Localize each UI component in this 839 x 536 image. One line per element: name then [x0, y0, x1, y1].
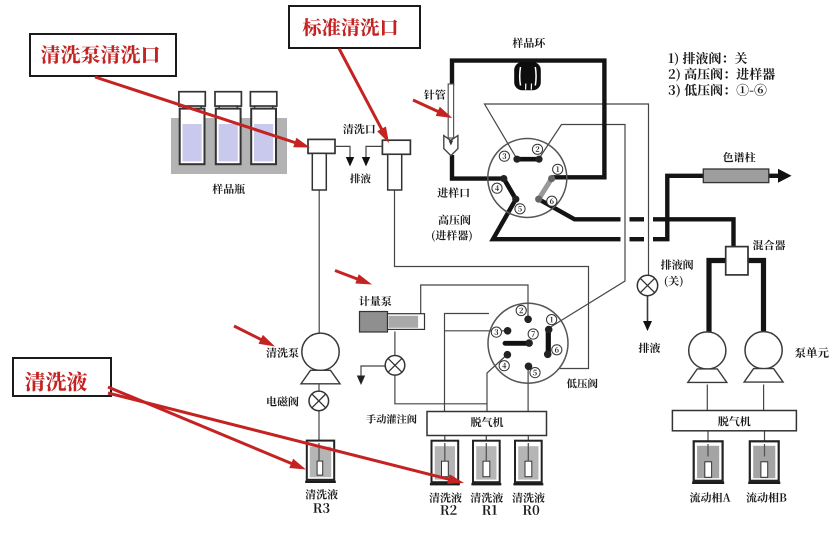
label pump unit [795, 347, 829, 358]
red arrow to metering pump [335, 271, 372, 285]
bottle R3 (wash liquid) [305, 441, 336, 483]
wire wash pump to solenoid valve [318, 383, 320, 391]
legend line 1 [669, 52, 747, 66]
red arrow box1 to left wash port [95, 77, 310, 148]
red arrow box3 to bottle R1 [108, 393, 464, 484]
flow line from HP valve port6 to mixer (upper, dashed crossing) [539, 199, 734, 247]
mixer to pump B pipe [748, 261, 764, 333]
sample vial bodies [180, 109, 276, 165]
manual priming valve [385, 356, 405, 376]
bottle R1 (wash liquid) [471, 441, 501, 486]
column (chromatography column) [703, 169, 769, 183]
wire R2 feed vertical [445, 314, 490, 412]
label R0 [512, 492, 545, 515]
label mobile phase A [690, 492, 731, 502]
left wash port (cleaning-pump wash port) [308, 139, 335, 190]
bottle R0 (wash liquid) [513, 441, 543, 486]
label wash port [343, 124, 375, 134]
column outlet arrow [766, 169, 792, 183]
degasser (mobile phases) [672, 411, 796, 431]
label needle [424, 89, 446, 99]
label high-pressure valve [432, 215, 472, 242]
label drain valve [661, 259, 693, 287]
low-pressure valve U-LP [488, 303, 568, 383]
degasser (wash liquids) [427, 412, 547, 436]
wash port drain connectors [335, 146, 382, 166]
high-pressure valve port numbers [492, 144, 563, 214]
wire right wash port to LP valve port6 [395, 190, 589, 369]
pump unit B [744, 332, 783, 383]
solenoid valve [309, 391, 329, 411]
right wash port (standard wash port) [382, 140, 410, 190]
label injection port [437, 188, 469, 198]
red arrow box3 to bottle R3 [108, 387, 306, 470]
label sample vials [212, 184, 245, 194]
label sample loop [513, 38, 545, 48]
wire metering pump to priming valve [394, 332, 396, 356]
label R1 [471, 492, 504, 515]
pump unit A [688, 332, 727, 383]
mixer [726, 247, 748, 275]
mixer to pump A pipe [709, 261, 726, 333]
tube feed wires inside bottles [319, 443, 765, 462]
wire port3 to drain valve [485, 104, 649, 277]
wire LP valve port4 to degasser [487, 355, 507, 412]
label manual priming valve [366, 414, 416, 424]
sample vial caps [179, 92, 277, 113]
label mixer [753, 240, 786, 250]
label degasser right [718, 416, 751, 426]
sample rack [171, 118, 287, 174]
wire LP valve port3 to R2 line [445, 330, 508, 332]
label R3 [305, 489, 338, 513]
wire LP valve port5 to degasser [527, 367, 529, 412]
sample loop tubing (thick loop) [452, 61, 604, 179]
label R2 [429, 492, 462, 515]
low-pressure valve port numbers [491, 305, 562, 377]
label solenoid valve [267, 396, 298, 406]
wires degasser to R2 R1 R0 bottles [445, 435, 529, 462]
red arrow box2 to right wash port [339, 49, 389, 144]
label metering pump [359, 296, 391, 306]
priming valve drain arrow [357, 366, 386, 385]
metering pump [360, 312, 425, 333]
legend line 3 [669, 84, 767, 98]
label column [723, 152, 756, 162]
red arrow to wash pump [234, 326, 275, 347]
callout box: standard wash port [289, 6, 420, 48]
label wash pump [266, 348, 298, 358]
callout box: wash-pump wash port [30, 34, 176, 76]
label low-pressure valve [567, 378, 598, 388]
needle (syringe) [444, 84, 458, 156]
callout box: wash liquid [13, 358, 111, 396]
label mobile phase B [746, 492, 786, 502]
wire metering pump to LP valve port2 [421, 285, 528, 318]
drain valve (closed) [637, 275, 657, 295]
wire priming valve to degasser [395, 375, 487, 403]
wire solenoid valve to bottle R3 [318, 411, 320, 462]
label drain (wash ports) [350, 173, 371, 183]
bottle mobile phase B [748, 441, 780, 484]
wash pump [301, 333, 340, 384]
wires degasser to mobile phase bottles [708, 431, 765, 463]
label drain (right) [639, 343, 661, 353]
bottle R2 (wash liquid) [430, 441, 460, 486]
label degasser center [471, 417, 504, 427]
high-pressure valve (injector) U-HP [488, 139, 567, 218]
drain valve outlet arrow [643, 296, 652, 331]
bottle mobile phase A [692, 441, 724, 484]
legend line 2 [669, 68, 775, 82]
wires pump units to degasser [707, 385, 763, 411]
sample loop coil [514, 62, 541, 90]
flow line from HP valve port5 (lower, dashed crossing) [493, 176, 704, 239]
red arrow to needle [413, 100, 452, 118]
wire port2 to low-pressure valve port1 [540, 125, 625, 329]
wire left wash port to wash pump [318, 190, 320, 333]
